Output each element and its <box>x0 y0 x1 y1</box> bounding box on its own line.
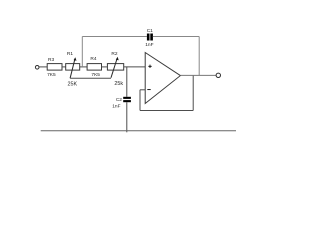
svg-text:25K: 25K <box>68 81 78 87</box>
svg-text:C1: C1 <box>147 28 153 34</box>
svg-text:1nF: 1nF <box>145 42 153 48</box>
op-amp - sign <box>147 89 150 91</box>
feedback wire bottom <box>140 110 193 112</box>
wiper link wire R1-R2 <box>70 77 111 79</box>
capacitor C2 <box>123 97 131 102</box>
wire C2 to ground rail <box>126 102 128 132</box>
svg-text:C2: C2 <box>116 97 122 103</box>
wire top to C1 <box>82 36 147 38</box>
wire C1 to right vertical <box>153 36 199 38</box>
op-amp + sign <box>148 65 151 68</box>
svg-text:7K5: 7K5 <box>47 72 56 78</box>
wire R3 to R1 <box>62 66 66 68</box>
output terminal <box>216 73 220 77</box>
feedback wire up to inverting input <box>139 90 141 111</box>
svg-text:R1: R1 <box>67 51 73 57</box>
svg-text:R4: R4 <box>90 56 96 62</box>
svg-text:R2: R2 <box>111 51 117 57</box>
wire right vertical down to output <box>198 37 200 76</box>
resistor R4 <box>87 64 101 71</box>
resistor R3 <box>47 64 62 71</box>
node junction C2 tap <box>126 67 128 97</box>
feedback wire into - input <box>140 89 145 91</box>
resistor R2 (pot body) <box>107 64 123 71</box>
ground rail <box>41 130 236 132</box>
svg-text:7K5: 7K5 <box>91 72 100 78</box>
svg-text:1nF: 1nF <box>112 104 120 110</box>
svg-text:25k: 25k <box>114 81 123 87</box>
wire R2 to op-amp <box>124 66 146 68</box>
wire input to R3 <box>39 66 47 68</box>
op-amp U1 <box>145 53 180 104</box>
node junction C1 tap <box>81 37 83 67</box>
R1 wiper arrow <box>70 57 76 78</box>
R2 wiper arrow <box>111 57 119 78</box>
svg-text:R3: R3 <box>48 57 54 63</box>
input terminal <box>35 66 39 70</box>
wire R1 to R4 <box>80 66 87 68</box>
wire R4 to R2 <box>102 66 108 68</box>
resistor R1 (pot body) <box>66 64 80 71</box>
output wire <box>180 74 216 76</box>
capacitor C1 <box>147 34 153 41</box>
feedback wire output down <box>192 75 194 110</box>
